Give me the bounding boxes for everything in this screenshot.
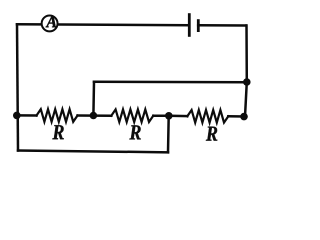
wire node B to R2 bbox=[93, 114, 111, 117]
battery cell short plate bbox=[197, 19, 200, 32]
resistor R2 value label bbox=[129, 125, 140, 139]
resistor R3 value label bbox=[206, 127, 217, 141]
ammeter U1 label A bbox=[46, 16, 57, 27]
battery cell long plate bbox=[188, 13, 191, 37]
resistor R1 value label bbox=[52, 125, 63, 139]
node E junction dot bbox=[243, 78, 251, 86]
resistor R2 bbox=[111, 109, 153, 122]
ammeter U1 circle bbox=[42, 15, 58, 31]
wire node C to R3 bbox=[169, 115, 188, 118]
wire top-left segment bbox=[17, 23, 189, 26]
node A junction dot bbox=[13, 112, 21, 120]
wire left rail bbox=[17, 24, 18, 150]
wire middle riser bbox=[92, 82, 95, 116]
node D junction dot bbox=[240, 113, 248, 121]
wire right rail bbox=[245, 26, 247, 117]
wire R3 to node D bbox=[228, 115, 244, 118]
wire R2 to node C bbox=[153, 114, 168, 117]
resistor R1 bbox=[37, 109, 78, 122]
wire bottom riser bbox=[167, 116, 170, 153]
node B junction dot bbox=[90, 112, 98, 120]
resistor R3 bbox=[187, 110, 228, 123]
node C junction dot bbox=[165, 112, 173, 120]
wire middle horizontal bbox=[94, 81, 246, 84]
wire bottom bbox=[18, 151, 168, 153]
wire R1 to node B bbox=[78, 114, 94, 117]
wire resistor-row left lead bbox=[17, 114, 37, 117]
wire top-right segment bbox=[198, 24, 246, 27]
